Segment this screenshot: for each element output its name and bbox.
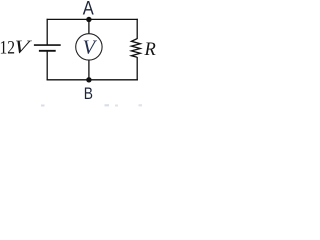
svg-text:V: V xyxy=(12,37,33,58)
svg-text:B: B xyxy=(84,84,93,103)
svg-text:R: R xyxy=(144,40,156,60)
wire left upper xyxy=(46,19,48,45)
wire left lower xyxy=(46,51,48,81)
node B junction dot xyxy=(86,77,91,82)
wire bottom xyxy=(47,79,138,81)
node A junction dot xyxy=(86,17,91,22)
svg-text:A: A xyxy=(83,0,94,19)
resistor R zigzag xyxy=(131,39,140,58)
wire voltmeter branch upper xyxy=(88,19,90,33)
battery V1 12V xyxy=(34,45,61,51)
wire right lower xyxy=(136,57,138,80)
cropped caption fragment marks at bottom edge xyxy=(41,104,142,106)
wire right upper xyxy=(136,19,138,39)
wire top xyxy=(47,18,138,20)
voltmeter U1 circle xyxy=(76,34,102,60)
wire voltmeter branch lower xyxy=(88,60,90,80)
